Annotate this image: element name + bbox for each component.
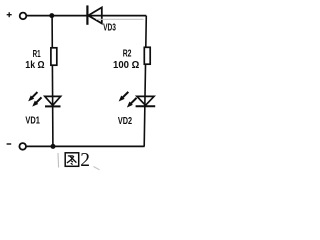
svg-text:VD2: VD2 [118, 116, 132, 127]
LED VD1 arrow 1 [26, 90, 39, 103]
LED VD1 arrow 2 [31, 96, 44, 109]
positive terminal [20, 13, 27, 20]
node B junction dot bottom [51, 144, 56, 149]
negative terminal [19, 143, 26, 150]
scan artifact mark right of caption [94, 167, 100, 170]
svg-text:R2: R2 [123, 49, 132, 60]
LED VD1 [45, 96, 61, 106]
resistor R1 [51, 48, 57, 65]
svg-text:R1: R1 [33, 49, 41, 60]
node A junction dot top [49, 13, 54, 18]
svg-text:2: 2 [80, 150, 90, 171]
LED VD2 arrow 2 [125, 96, 138, 109]
resistor R2 [144, 47, 150, 64]
LED VD2 arrow 1 [117, 90, 130, 103]
scan artifact mark left of caption [57, 153, 60, 168]
node + (positive supply label) [7, 12, 12, 17]
scan artifact streak under top wire [96, 18, 144, 20]
LED VD2 [136, 96, 156, 106]
svg-text:1k Ω: 1k Ω [25, 60, 44, 71]
diode VD3 [87, 5, 101, 24]
node - (negative supply label) [7, 143, 12, 145]
wire top horizontal [27, 15, 147, 17]
wire left vertical branch [51, 16, 54, 147]
svg-text:VD3: VD3 [103, 23, 116, 34]
svg-text:100 Ω: 100 Ω [113, 60, 139, 71]
wire bottom horizontal [27, 145, 145, 147]
caption 图 (figure character, drawn) [65, 153, 79, 167]
svg-text:VD1: VD1 [25, 116, 40, 127]
wire right vertical branch [144, 16, 146, 147]
